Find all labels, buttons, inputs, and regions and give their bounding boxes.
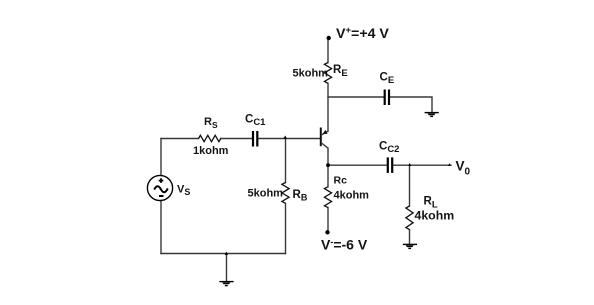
wire left vertical upper	[160, 139, 162, 176]
svg-text:4kohm: 4kohm	[415, 208, 455, 222]
wire RB top lead	[285, 139, 287, 183]
resistor RL	[406, 206, 413, 230]
resistor RB	[282, 183, 289, 204]
wire Rc bottom lead	[327, 208, 329, 234]
wire RE to emitter	[327, 83, 329, 131]
transistor Q1	[321, 128, 329, 149]
node V- dot	[325, 230, 329, 234]
wire emitter to CE	[328, 96, 384, 98]
wire RL top lead	[409, 165, 411, 206]
wire collector vertical	[327, 148, 329, 165]
svg-text:V-=-6 V: V-=-6 V	[321, 237, 368, 253]
capacitor CC2	[388, 157, 392, 173]
svg-text:V+=+4 V: V+=+4 V	[336, 25, 389, 42]
node output junction marker	[408, 163, 411, 166]
source VS	[147, 175, 172, 200]
wire CC1 to base (node B)	[258, 138, 320, 140]
wire CE to ground	[390, 97, 432, 112]
wire bottom ground stem	[226, 254, 228, 282]
wire Rc top lead	[327, 165, 329, 187]
svg-text:5kohm: 5kohm	[248, 187, 284, 199]
node bottom junction marker	[225, 252, 228, 256]
ground RL	[403, 244, 417, 248]
svg-text:1kohm: 1kohm	[193, 145, 229, 157]
svg-text:5kohm: 5kohm	[293, 67, 329, 79]
wire collector to CC2	[328, 164, 387, 166]
node base junction marker	[283, 136, 287, 139]
svg-text:4kohm: 4kohm	[334, 190, 370, 202]
resistor Rc	[324, 187, 331, 208]
resistor RE	[324, 63, 331, 84]
svg-text:Rc: Rc	[334, 175, 348, 187]
wire left vertical lower	[160, 201, 162, 254]
ground bottom	[219, 282, 233, 286]
resistor RS	[199, 135, 221, 141]
capacitor CC1	[253, 131, 257, 147]
wire RB bottom lead	[285, 203, 287, 253]
node V+ dot	[327, 36, 331, 40]
wire CC2 to V0	[393, 164, 451, 166]
capacitor CE	[385, 90, 389, 106]
wire bottom	[161, 253, 286, 255]
node V0 end marker	[448, 163, 451, 166]
wire RS to CC1	[221, 138, 252, 140]
wire RL bottom lead	[409, 230, 411, 244]
node collector junction dot	[326, 163, 330, 167]
wire V+ to RE	[327, 38, 329, 63]
ground CE	[425, 113, 439, 117]
wire left horizontal input	[161, 138, 199, 140]
